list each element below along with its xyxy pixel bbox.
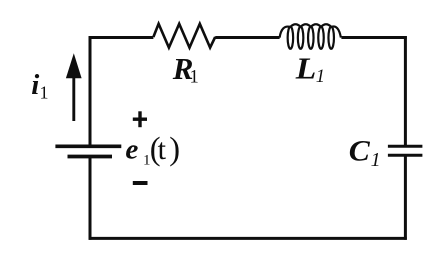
wire top-left segment: [89, 36, 154, 39]
wire left vertical upper: [89, 36, 92, 146]
wire inductor to top-right corner: [341, 36, 406, 39]
svg-text:): ): [169, 131, 180, 167]
inductor L1: [280, 24, 341, 49]
svg-text:e: e: [125, 135, 138, 166]
plus sign: [133, 111, 147, 127]
svg-text:t: t: [158, 133, 167, 166]
svg-text:1: 1: [316, 67, 325, 87]
current arrow i1 stem: [72, 77, 75, 121]
wire left vertical lower: [89, 157, 92, 240]
svg-text:L: L: [295, 50, 317, 85]
svg-text:C: C: [349, 136, 370, 168]
battery e1 top plate: [55, 144, 121, 148]
capacitor C1 top plate: [388, 145, 423, 148]
wire bottom: [89, 237, 407, 240]
svg-text:i: i: [31, 69, 39, 101]
svg-text:1: 1: [190, 67, 199, 87]
minus sign: [133, 181, 148, 185]
capacitor C1 bottom plate: [388, 154, 423, 157]
battery e1 bottom plate: [68, 155, 113, 159]
svg-text:1: 1: [40, 83, 49, 103]
resistor R1: [153, 24, 215, 48]
wire right vertical upper: [404, 36, 407, 146]
svg-text:1: 1: [371, 149, 381, 171]
current arrow i1 head: [66, 53, 82, 78]
wire right vertical lower: [404, 155, 407, 240]
wire between resistor and inductor: [215, 36, 279, 39]
